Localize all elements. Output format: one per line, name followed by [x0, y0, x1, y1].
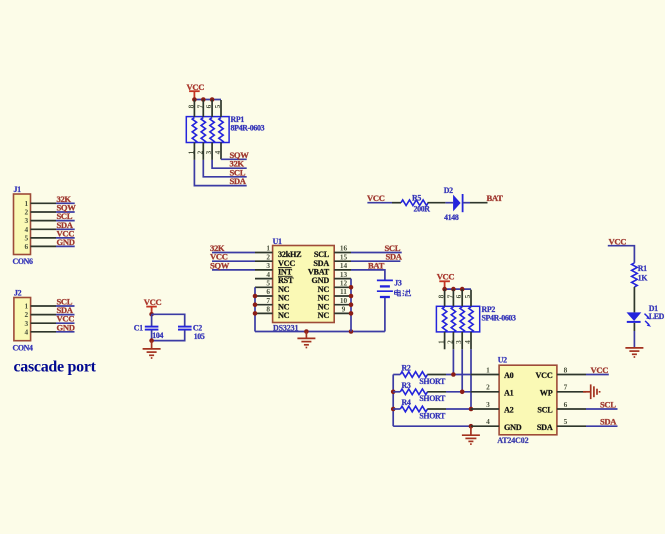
svg-text:SDA: SDA: [600, 417, 617, 427]
connector J2: [13, 289, 33, 353]
svg-text:1: 1: [266, 244, 270, 253]
junction U1 pin 10: [349, 302, 354, 307]
svg-text:GND: GND: [504, 423, 522, 432]
svg-text:NC: NC: [318, 302, 330, 311]
svg-text:VCC: VCC: [144, 297, 162, 307]
J1 pin 2: [24, 208, 56, 217]
svg-text:SDA: SDA: [230, 176, 247, 186]
power symbol VCC above RP2: [437, 272, 455, 289]
svg-text:A2: A2: [504, 406, 514, 415]
capacitor C1 104: [134, 314, 164, 340]
svg-text:8: 8: [437, 294, 446, 298]
svg-text:7: 7: [266, 296, 270, 305]
svg-text:8: 8: [186, 104, 195, 108]
svg-text:NC: NC: [318, 285, 330, 294]
U1 pin 1 32kHZ: [255, 244, 302, 259]
wire + net label SCL from U1 pin 16: [351, 243, 402, 253]
wire RP2 pin 2 down to A0 row: [452, 349, 454, 374]
resistor R2 SHORT: [393, 364, 446, 386]
U1 pin 13 GND: [312, 270, 351, 285]
ground below U1: [297, 332, 315, 348]
wire + net label 32K from RP1 pin 3: [212, 159, 247, 169]
svg-text:3: 3: [486, 400, 490, 409]
svg-text:GND: GND: [57, 322, 75, 332]
svg-text:2: 2: [445, 340, 454, 344]
svg-text:4: 4: [213, 150, 222, 154]
J2 pin 4: [24, 327, 56, 336]
wire RP2 pin 3 down to A1 row: [461, 349, 463, 392]
wire D1 to ground: [633, 323, 635, 348]
svg-text:5: 5: [213, 104, 222, 108]
svg-text:13: 13: [340, 270, 348, 279]
wire R3 to U2 pin 2: [446, 391, 471, 393]
ground below D1: [625, 348, 643, 357]
U1 pin 7 NC: [255, 296, 290, 311]
svg-text:A0: A0: [504, 371, 514, 380]
U1 pin 6 NC: [255, 287, 290, 302]
wire + net label VCC from U2 pin 8: [586, 365, 609, 375]
svg-text:1: 1: [437, 340, 446, 344]
J1 pin 6: [24, 242, 56, 251]
power symbol VCC above C1 C2: [144, 297, 162, 314]
U1 pin 4 RST (overline): [255, 270, 294, 285]
power symbol VCC above RP1: [187, 82, 205, 100]
RP1 pin 7 (top col2): [195, 100, 204, 118]
J1 pin 4: [24, 225, 56, 234]
svg-text:14: 14: [340, 261, 348, 270]
wire + net label SDA from U1 pin 15: [351, 252, 403, 262]
svg-text:104: 104: [152, 331, 163, 340]
svg-text:7: 7: [445, 294, 454, 298]
svg-text:SCL: SCL: [537, 406, 553, 415]
svg-text:3: 3: [454, 340, 463, 344]
svg-text:VCC: VCC: [437, 272, 455, 282]
junction U1 pin 12: [349, 285, 354, 290]
svg-text:NC: NC: [318, 294, 330, 303]
svg-text:INT: INT: [278, 268, 293, 277]
svg-text:AT24C02: AT24C02: [497, 436, 528, 445]
wire + net label SQW to U1 pin 3: [210, 260, 255, 270]
svg-text:3: 3: [266, 261, 270, 270]
wire + net label SCL on J1 pin 3: [56, 211, 75, 221]
wire: GND row to U2 pin 4: [393, 425, 471, 427]
RP1 pin 5 (top col4): [213, 100, 222, 117]
svg-text:1K: 1K: [638, 274, 649, 283]
U1 pin 9 NC: [318, 305, 351, 320]
svg-text:WP: WP: [540, 388, 553, 397]
junction U1 pin 8: [253, 311, 258, 316]
wire + net label SQW on J1 pin 2: [56, 203, 76, 213]
resistor pack RP2 body: [436, 305, 516, 332]
resistor R4 SHORT: [393, 398, 446, 420]
wire D2 to BAT: [463, 202, 488, 204]
wire + net label GND on J1 pin 6: [56, 237, 75, 247]
U1 pin 3 INT (overline): [255, 261, 293, 276]
svg-text:R3: R3: [402, 381, 411, 390]
svg-text:4: 4: [24, 327, 28, 336]
svg-text:C1: C1: [134, 324, 143, 333]
junction at C1 bottom: [149, 338, 154, 343]
LED D1: [627, 304, 665, 327]
svg-text:R5: R5: [412, 194, 421, 203]
RP1 pin 6 (top col3): [204, 100, 213, 118]
svg-text:BAT: BAT: [368, 260, 385, 270]
diode D2 4148: [444, 186, 463, 222]
svg-text:1: 1: [486, 365, 490, 374]
RP1 resistor element col4: [219, 118, 223, 144]
RP1 pin 8 (top col1): [186, 100, 195, 118]
svg-text:SDA: SDA: [537, 423, 553, 432]
RP2 pin 6 (top col3): [454, 289, 463, 306]
junction on RP2 rail col3: [460, 287, 465, 292]
svg-text:15: 15: [340, 252, 348, 261]
wire + net label VCC to U1 pin 2: [210, 252, 255, 262]
RP2 resistor element col3: [460, 307, 464, 333]
svg-text:1: 1: [186, 150, 195, 154]
U2 pin 7 WP: [540, 383, 586, 398]
RP2 resistor element col1: [442, 307, 446, 333]
battery J3: [377, 279, 402, 298]
svg-text:D2: D2: [444, 186, 453, 195]
svg-text:4148: 4148: [444, 213, 459, 222]
svg-text:2: 2: [195, 150, 204, 154]
J1 pin 3: [24, 216, 56, 225]
junction U1 pin 9: [349, 311, 354, 316]
wire RP2 pin 4 down to A2 row: [470, 349, 472, 409]
wire + net label VCC on J1 pin 5: [56, 228, 75, 238]
U1 pin 12 NC: [318, 279, 351, 294]
wire: battery bottom to ground wire: [384, 298, 386, 332]
svg-text:32kHZ: 32kHZ: [278, 250, 302, 259]
U2 pin 5 SDA: [537, 417, 586, 432]
RP2 pin 2 (bottom col2): [445, 332, 454, 349]
wire + net label SQW from RP1 pin 4: [221, 150, 249, 160]
junction GND row at ground stem: [469, 424, 474, 429]
svg-text:RST: RST: [278, 276, 294, 285]
svg-text:NC: NC: [278, 311, 290, 320]
svg-text:VCC: VCC: [278, 259, 295, 268]
ground below C1: [143, 341, 161, 358]
svg-text:SHORT: SHORT: [419, 377, 446, 386]
ground below U2 GND row: [462, 426, 480, 444]
wire: RP2 VCC rail: [445, 288, 471, 290]
RP1 pin 2 (bottom col2): [195, 143, 204, 160]
svg-text:2: 2: [266, 252, 270, 261]
wire + net label BAT from U1 pin 14 to battery: [351, 260, 385, 280]
resistor R3 SHORT: [393, 381, 446, 403]
svg-text:8P4R-0603: 8P4R-0603: [231, 124, 265, 133]
svg-text:GND: GND: [57, 237, 75, 247]
junction on RP2 rail col1: [442, 287, 447, 292]
svg-text:R1: R1: [638, 264, 647, 273]
RP2 pin 8 (top col1): [437, 289, 446, 306]
U1 pin 16 SCL: [314, 244, 351, 259]
junction U1 pin 6: [253, 294, 258, 299]
U1 pin 8 NC: [255, 305, 290, 320]
junction on RP2 rail col2: [451, 287, 456, 292]
svg-text:BAT: BAT: [487, 193, 504, 203]
svg-text:VCC: VCC: [367, 193, 385, 203]
junction left rail at R4: [391, 407, 396, 412]
J2 pin 3: [24, 319, 56, 328]
RP1 pin 3 (bottom col3): [204, 143, 213, 160]
wire: RP1 VCC rail: [194, 99, 221, 101]
wire R4 to U2 pin 3: [446, 408, 471, 410]
wire: U1 right NC rail (pins 13-9): [350, 279, 352, 332]
svg-text:SCL: SCL: [600, 400, 616, 410]
resistor pack RP1 body: [186, 115, 264, 143]
capacitor C2 105: [178, 324, 205, 342]
U1 pin 2 VCC: [255, 252, 295, 267]
U1 pin 5 NC: [255, 279, 290, 294]
RP2 resistor element col4: [469, 307, 473, 333]
svg-text:SP4R-0603: SP4R-0603: [482, 314, 517, 323]
RP2 pin 3 (bottom col3): [454, 332, 463, 349]
svg-text:cascade port: cascade port: [14, 359, 97, 376]
svg-text:VCC: VCC: [591, 365, 609, 375]
RP1 resistor element col2: [201, 118, 205, 144]
svg-text:NC: NC: [278, 302, 290, 311]
svg-text:5: 5: [564, 417, 568, 426]
svg-text:J1: J1: [14, 185, 22, 194]
svg-text:3: 3: [24, 216, 28, 225]
U2 pin 2 A1: [471, 383, 514, 398]
svg-text:6: 6: [454, 294, 463, 298]
junction A0 row / RP2 pin2: [451, 372, 456, 377]
U2 pin 1 A0: [471, 365, 514, 380]
wire: U1 left NC rail (pins 5-8): [254, 287, 256, 331]
svg-text:105: 105: [194, 332, 205, 341]
RP1 resistor element col3: [210, 118, 214, 144]
junction U1 pin 7: [253, 302, 258, 307]
svg-text:R2: R2: [402, 364, 411, 373]
junction A1 row / RP2 pin3: [460, 390, 465, 395]
wire + net label 32K to U1 pin 1: [210, 243, 255, 253]
svg-text:4: 4: [486, 417, 490, 426]
U1 pin 10 NC: [318, 296, 351, 311]
RP1 pin 1 (bottom col1): [186, 143, 195, 160]
U2 pin 8 VCC: [536, 365, 587, 380]
U1 pin 14 VBAT: [308, 261, 351, 276]
wire: U1 bottom ground wire: [255, 331, 385, 333]
svg-text:SDA: SDA: [313, 259, 329, 268]
J2 pin 1: [24, 302, 56, 311]
svg-text:U2: U2: [498, 356, 507, 365]
svg-text:NC: NC: [278, 285, 290, 294]
svg-text:200R: 200R: [414, 205, 431, 214]
junction at C1 top: [149, 312, 154, 317]
U2 pin 6 SCL: [537, 400, 586, 415]
junction left rail at R3: [391, 390, 396, 395]
junction on RP1 rail col3: [210, 97, 215, 102]
svg-text:A1: A1: [504, 388, 514, 397]
svg-text:6: 6: [266, 287, 270, 296]
svg-text:8: 8: [266, 305, 270, 314]
svg-text:J2: J2: [14, 289, 22, 298]
svg-text:GND: GND: [312, 276, 330, 285]
wire + net label SDA on J1 pin 4: [56, 220, 75, 230]
RP2 pin 1 (bottom col1, unconnected): [437, 332, 446, 349]
wire R5 to D2: [445, 202, 453, 204]
wire C1 top to C2 branch: [152, 314, 185, 326]
svg-text:8: 8: [564, 365, 568, 374]
wire: left rail joining R2 R3 R4: [392, 375, 394, 427]
junction on RP1 rail col1: [192, 97, 197, 102]
junction A2 row / RP2 pin4: [469, 407, 474, 412]
RP2 resistor element col2: [451, 307, 455, 333]
svg-text:SQW: SQW: [210, 260, 230, 270]
resistor R5 200R: [392, 194, 445, 214]
J2 pin 2: [24, 310, 56, 319]
U2 pin 4 GND: [471, 417, 522, 432]
svg-text:VCC: VCC: [536, 371, 553, 380]
wire + net label SCL from U2 pin 6: [586, 400, 618, 410]
U1 pin 15 SDA: [313, 252, 351, 267]
IC U1 DS3231 body: [273, 237, 335, 332]
U1 pin 11 NC: [318, 287, 351, 302]
svg-text:NC: NC: [278, 294, 290, 303]
wire + net label SCL on J2 pin 1: [56, 297, 75, 307]
svg-text:7: 7: [195, 104, 204, 108]
RP2 pin 4 (bottom col4): [463, 332, 472, 349]
svg-text:4: 4: [463, 340, 472, 344]
svg-text:SCL: SCL: [314, 250, 330, 259]
wire VCC to R1: [608, 246, 635, 263]
svg-text:4: 4: [266, 270, 270, 279]
svg-text:3: 3: [204, 150, 213, 154]
wire + net label SDA from U2 pin 5: [586, 417, 618, 427]
wire R1 to D1: [633, 287, 635, 313]
svg-text:VBAT: VBAT: [308, 268, 330, 277]
resistor R1 1K: [632, 263, 649, 287]
wire + net label SDA on J2 pin 2: [56, 305, 75, 315]
svg-text:SHORT: SHORT: [419, 394, 446, 403]
junction U1 pin 11: [349, 294, 354, 299]
svg-text:1: 1: [24, 199, 28, 208]
svg-text:6: 6: [24, 242, 28, 251]
svg-text:12: 12: [340, 279, 348, 288]
svg-text:SDA: SDA: [386, 252, 403, 262]
value label 电池 (battery) hand-drawn glyphs: [395, 289, 411, 296]
wire VCC to R5: [367, 202, 392, 204]
svg-text:CON6: CON6: [13, 257, 33, 266]
svg-text:J3: J3: [394, 279, 402, 288]
junction on RP1 rail col2: [201, 97, 206, 102]
J1 pin 5: [24, 234, 56, 243]
svg-text:VCC: VCC: [609, 236, 627, 246]
wire C2 bottom to C1 bottom: [152, 330, 185, 340]
wire U2 pin 7 to ground: [583, 391, 591, 393]
svg-text:9: 9: [342, 305, 346, 314]
svg-text:10: 10: [340, 296, 348, 305]
ground (sideways) at U2 WP: [591, 384, 600, 399]
U2 pin 3 A2: [471, 400, 514, 415]
svg-text:5: 5: [266, 279, 270, 288]
RP1 pin 4 (bottom col4): [213, 143, 222, 160]
wire R2 to U2 pin 1: [446, 374, 471, 376]
svg-text:2: 2: [486, 383, 490, 392]
RP2 pin 7 (top col2): [445, 289, 454, 306]
svg-text:SHORT: SHORT: [419, 411, 446, 420]
wire + net label SDA from RP1 pin 1: [194, 160, 246, 186]
RP1 resistor element col1: [192, 118, 196, 144]
wire + net label VCC on J2 pin 3: [56, 314, 75, 324]
wire + net label 32K on J1 pin 1: [56, 194, 75, 204]
wire + net label SCL from RP1 pin 2: [203, 160, 246, 177]
junction at U1 right rail bottom: [349, 329, 354, 334]
svg-text:11: 11: [340, 287, 347, 296]
IC U2 AT24C02 body: [497, 356, 557, 445]
svg-text:LED: LED: [649, 312, 665, 321]
svg-text:NC: NC: [318, 311, 330, 320]
J1 pin 1: [24, 199, 56, 208]
svg-text:7: 7: [564, 383, 568, 392]
svg-text:6: 6: [204, 104, 213, 108]
RP2 pin 5 (top col4): [463, 290, 472, 307]
connector J1: [13, 185, 33, 266]
svg-text:5: 5: [463, 294, 472, 298]
wire + net label GND on J2 pin 4: [56, 322, 75, 332]
junction at U1 ground stem: [304, 329, 309, 334]
svg-text:CON4: CON4: [13, 344, 33, 353]
svg-text:6: 6: [564, 400, 568, 409]
svg-text:R4: R4: [402, 398, 411, 407]
svg-text:16: 16: [340, 244, 348, 253]
